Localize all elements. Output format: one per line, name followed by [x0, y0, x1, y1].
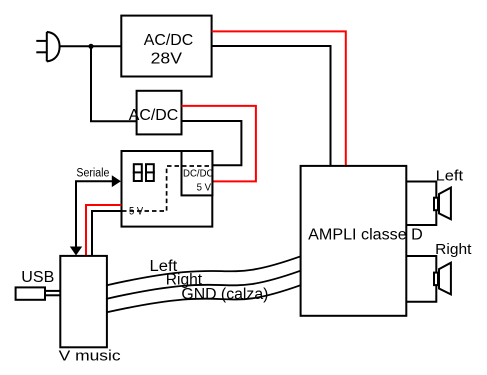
wire black AC/DC to DC/DC: [182, 121, 242, 165]
node junction: [88, 44, 93, 49]
speaker LS2 Right: [434, 263, 451, 295]
speaker LS1 Left: [434, 188, 451, 220]
svg-text:28V: 28V: [151, 50, 183, 67]
wire GND (calza): [107, 285, 301, 312]
svg-text:Left: Left: [436, 167, 464, 184]
wire red 5V to V music: [86, 205, 122, 256]
power supply U2 AC/DC: [129, 91, 182, 135]
USB connector J1: [16, 287, 61, 299]
wire junction down to AC/DC: [91, 46, 137, 121]
wire black gnd to V music: [92, 211, 122, 256]
wire plug to AC/DC 28V: [59, 45, 121, 47]
svg-text:DC/DC: DC/DC: [183, 167, 214, 179]
svg-text:USB: USB: [21, 269, 54, 286]
dock box: [122, 151, 213, 227]
power supply U1 AC/DC 28V: [121, 16, 211, 77]
USB port symbol 2: [145, 164, 155, 181]
converter U3 DC/DC 5V: [182, 151, 214, 195]
wire right speaker loop: [406, 256, 436, 302]
seriale arrow wire: [70, 175, 121, 255]
wire Left signal: [107, 256, 301, 285]
svg-text:5 V: 5 V: [197, 182, 211, 194]
svg-text:V music: V music: [59, 348, 122, 365]
wire Right signal: [107, 271, 301, 299]
svg-text:Right: Right: [435, 241, 472, 258]
dashed 5V net inside dock: [122, 166, 212, 211]
amplifier U4 AMPLI classe D: [301, 166, 423, 316]
svg-text:AMPLI classe D: AMPLI classe D: [308, 227, 423, 244]
svg-text:AC/DC: AC/DC: [129, 107, 178, 124]
plug P1: [36, 32, 59, 62]
svg-text:GND (calza): GND (calza): [181, 286, 268, 303]
wire red AC/DC to DC/DC: [182, 106, 256, 181]
wire black AC/DC 28V to AMPLI: [212, 46, 331, 167]
wire red AC/DC 28V to AMPLI: [212, 31, 346, 166]
wire left speaker loop: [406, 182, 436, 226]
USB port symbol 1: [133, 164, 143, 181]
module V music: [59, 256, 122, 365]
svg-text:AC/DC: AC/DC: [144, 32, 193, 49]
svg-text:Seriale: Seriale: [76, 168, 109, 180]
